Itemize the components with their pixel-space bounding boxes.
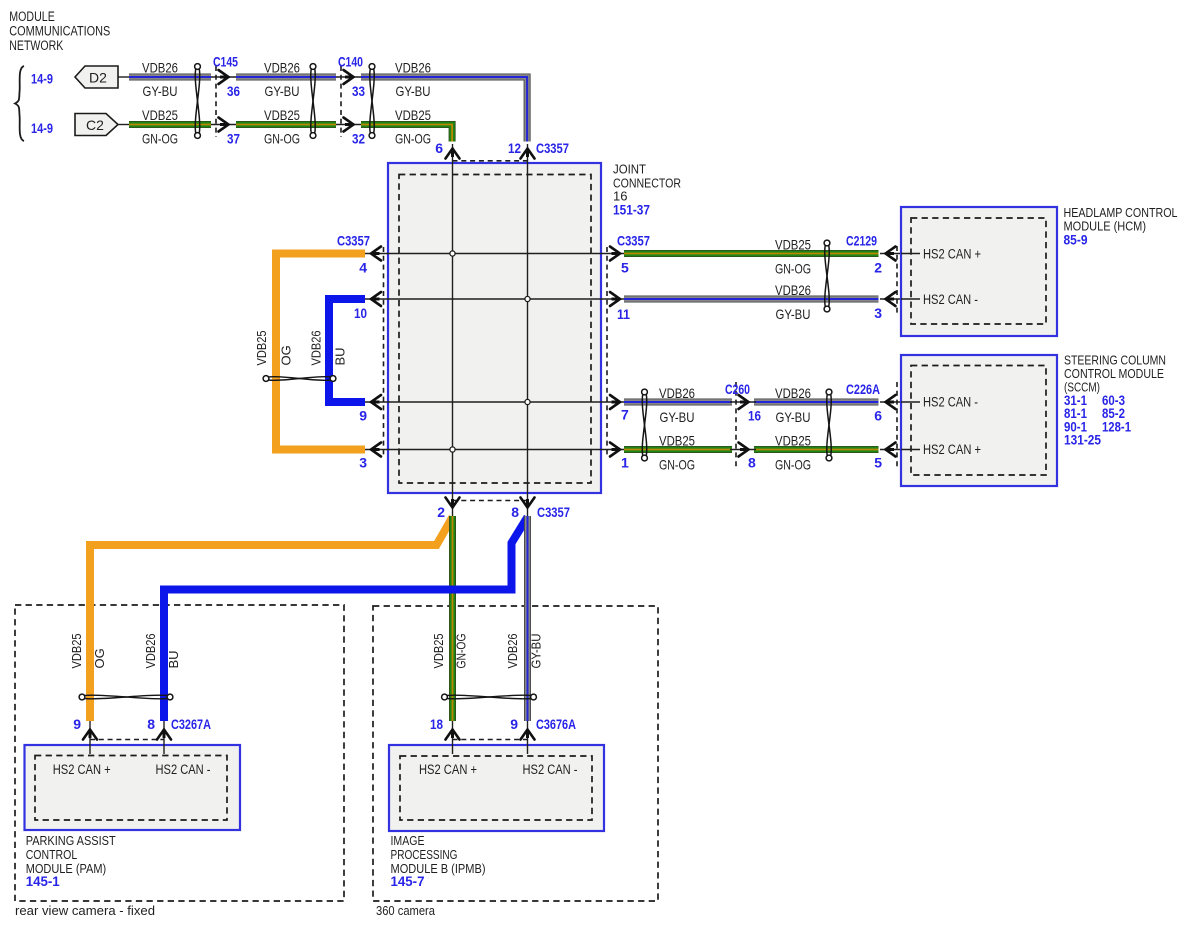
svg-text:VDB26: VDB26 [395,60,431,76]
svg-text:C260: C260 [725,381,750,397]
svg-text:HEADLAMP CONTROL: HEADLAMP CONTROL [1064,205,1178,220]
svg-text:18: 18 [430,716,443,732]
svg-text:GY-BU: GY-BU [660,409,695,425]
svg-text:GN-OG: GN-OG [454,634,469,669]
svg-text:HS2 CAN -: HS2 CAN - [523,762,578,777]
svg-text:MODULE: MODULE [9,9,55,24]
svg-text:D2: D2 [89,70,107,86]
svg-text:131-25: 131-25 [1064,432,1101,448]
svg-text:VDB25: VDB25 [264,107,300,123]
svg-text:1: 1 [621,455,629,471]
svg-text:HS2 CAN +: HS2 CAN + [53,762,111,777]
svg-text:GN-OG: GN-OG [775,261,811,277]
svg-text:8: 8 [511,504,519,520]
svg-text:6: 6 [874,408,882,424]
svg-text:OG: OG [92,648,107,668]
svg-text:HS2 CAN -: HS2 CAN - [923,395,978,410]
svg-text:BU: BU [333,347,348,365]
svg-text:3: 3 [874,305,882,321]
svg-text:HS2 CAN +: HS2 CAN + [923,247,981,262]
svg-text:PROCESSING: PROCESSING [391,847,458,862]
svg-text:VDB26: VDB26 [309,331,324,366]
svg-text:14-9: 14-9 [31,120,53,136]
svg-text:16: 16 [748,408,761,424]
svg-text:C3676A: C3676A [536,716,576,732]
svg-text:HS2 CAN +: HS2 CAN + [923,442,981,457]
svg-text:C3357: C3357 [617,233,650,249]
svg-text:VDB25: VDB25 [775,433,811,449]
svg-text:GY-BU: GY-BU [265,83,300,99]
svg-text:C145: C145 [213,54,238,70]
svg-text:11: 11 [617,306,630,322]
svg-text:VDB25: VDB25 [254,331,269,366]
svg-text:OG: OG [279,345,294,365]
svg-text:HS2 CAN -: HS2 CAN - [156,762,211,777]
svg-text:VDB26: VDB26 [142,60,178,76]
svg-text:C140: C140 [338,54,363,70]
svg-text:C3357: C3357 [536,140,569,156]
svg-text:C3357: C3357 [337,233,370,249]
svg-text:VDB26: VDB26 [775,282,811,298]
svg-text:VDB26: VDB26 [264,60,300,76]
svg-text:3: 3 [359,455,367,471]
svg-text:5: 5 [621,260,629,276]
svg-text:VDB25: VDB25 [142,107,178,123]
svg-text:GY-BU: GY-BU [143,83,178,99]
svg-text:VDB26: VDB26 [659,385,695,401]
svg-text:8: 8 [748,455,756,471]
svg-text:NETWORK: NETWORK [9,38,63,53]
svg-text:GN-OG: GN-OG [395,131,431,147]
svg-text:VDB26: VDB26 [775,385,811,401]
svg-text:VDB25: VDB25 [395,107,431,123]
svg-text:rear view camera - fixed: rear view camera - fixed [15,903,155,918]
svg-text:GY-BU: GY-BU [776,306,811,322]
svg-text:9: 9 [359,408,367,424]
svg-text:2: 2 [874,260,882,276]
svg-text:360 camera: 360 camera [376,903,436,918]
svg-text:VDB25: VDB25 [775,237,811,253]
svg-text:85-9: 85-9 [1064,232,1088,248]
svg-text:6: 6 [435,140,443,156]
svg-text:GY-BU: GY-BU [396,83,431,99]
svg-text:C2: C2 [86,117,104,133]
svg-text:VDB25: VDB25 [431,634,446,669]
svg-text:COMMUNICATIONS: COMMUNICATIONS [9,23,110,38]
svg-text:GN-OG: GN-OG [659,457,695,473]
svg-text:VDB26: VDB26 [505,634,520,669]
svg-text:145-1: 145-1 [26,873,60,889]
svg-text:CONTROL: CONTROL [26,847,77,862]
svg-text:JOINT: JOINT [613,162,646,177]
svg-text:4: 4 [359,260,367,276]
svg-text:C3267A: C3267A [171,716,211,732]
svg-text:8: 8 [147,716,155,732]
svg-text:5: 5 [874,455,882,471]
svg-text:7: 7 [621,407,629,423]
svg-text:BU: BU [166,650,181,668]
svg-text:VDB25: VDB25 [659,433,695,449]
svg-text:151-37: 151-37 [613,201,650,217]
svg-text:HS2 CAN +: HS2 CAN + [419,762,477,777]
svg-text:VDB25: VDB25 [69,634,84,669]
svg-text:9: 9 [73,716,81,732]
svg-text:36: 36 [227,83,240,99]
svg-text:145-7: 145-7 [391,873,425,889]
svg-text:2: 2 [437,504,445,520]
svg-text:C226A: C226A [846,381,880,397]
svg-text:12: 12 [508,140,521,156]
svg-text:10: 10 [354,305,367,321]
svg-text:32: 32 [352,131,365,147]
svg-text:14-9: 14-9 [31,71,53,87]
svg-text:GY-BU: GY-BU [776,409,811,425]
svg-text:9: 9 [510,716,518,732]
svg-text:C2129: C2129 [846,233,877,249]
svg-text:33: 33 [352,83,365,99]
svg-text:GN-OG: GN-OG [142,131,178,147]
svg-text:GN-OG: GN-OG [775,457,811,473]
svg-text:HS2 CAN -: HS2 CAN - [923,292,978,307]
svg-text:37: 37 [227,131,240,147]
svg-text:GY-BU: GY-BU [529,634,544,669]
svg-text:GN-OG: GN-OG [264,131,300,147]
svg-text:VDB26: VDB26 [143,634,158,669]
svg-text:C3357: C3357 [537,504,570,520]
svg-text:128-1: 128-1 [1102,419,1131,435]
